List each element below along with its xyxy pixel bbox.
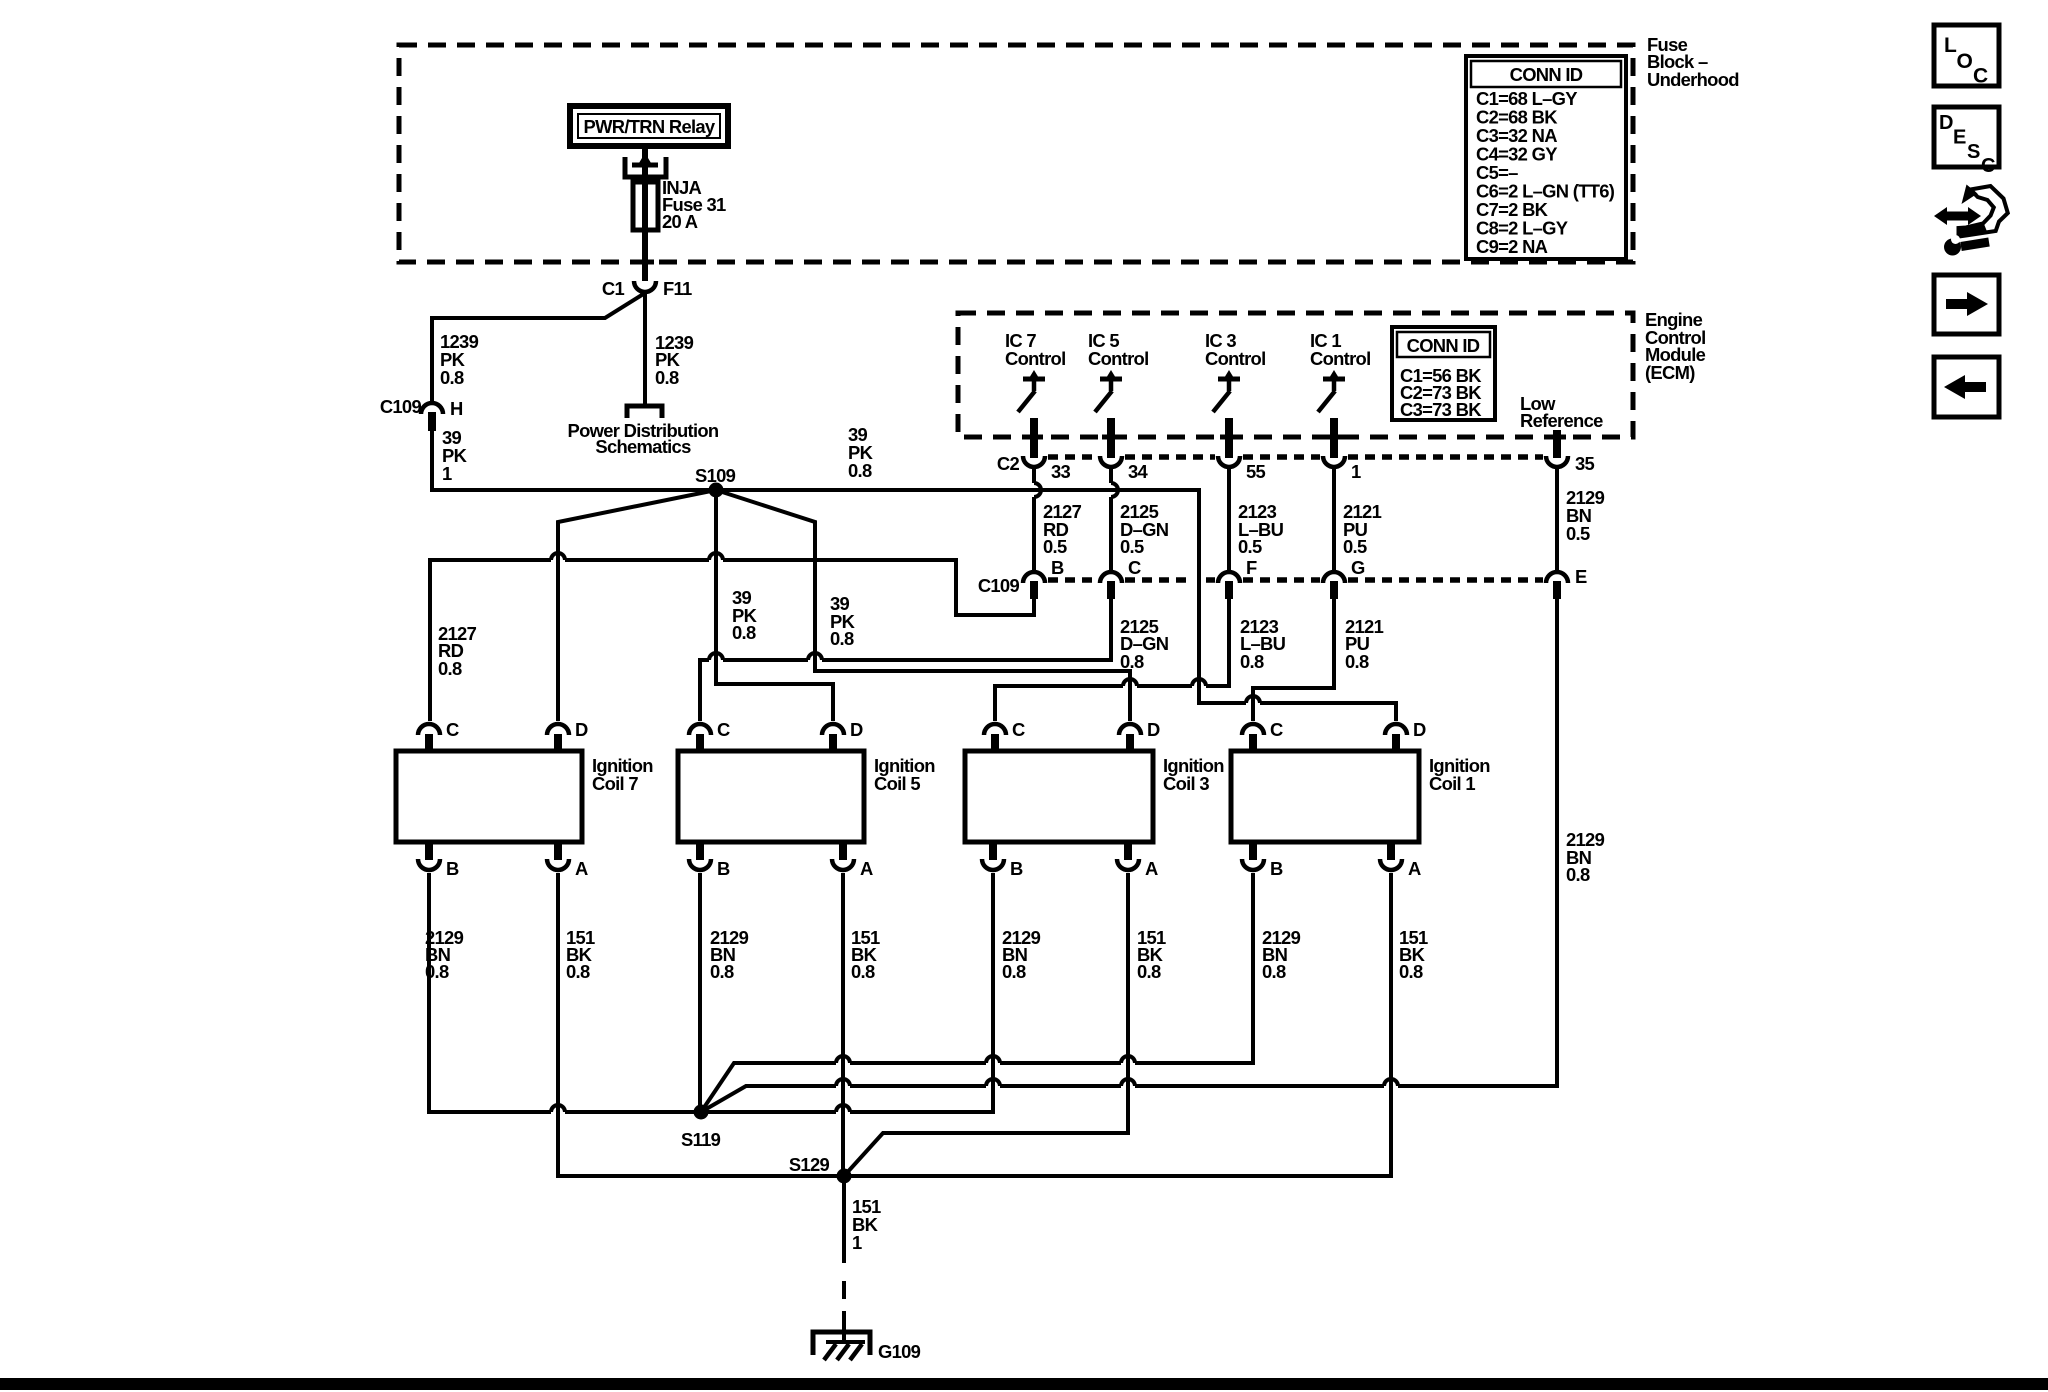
svg-text:S119: S119 — [681, 1129, 721, 1150]
coil 3 pin A — [1117, 841, 1158, 879]
svg-text:PWR/TRN Relay: PWR/TRN Relay — [584, 116, 716, 137]
svg-text:G: G — [1351, 557, 1365, 578]
svg-text:(ECM): (ECM) — [1645, 362, 1695, 383]
wire 2127 RD 0.8 (C109 B to coil 7 C) — [430, 553, 1034, 721]
ignition coil 5 box — [678, 751, 935, 842]
label 2127 RD 0.8 — [438, 623, 477, 679]
svg-text:Coil 5: Coil 5 — [874, 773, 920, 794]
svg-text:C: C — [1270, 719, 1283, 740]
label 39 PK 1 — [442, 427, 468, 484]
coil 5 pin C — [689, 719, 730, 750]
svg-text:B: B — [1051, 557, 1064, 578]
connector C1 pin F11 — [602, 278, 692, 299]
label 2125 D-GN 0.5 — [1120, 501, 1169, 557]
connector C2 pin 34 — [1100, 456, 1149, 482]
splice S109 — [695, 465, 736, 498]
fuse block underhood dashed box — [399, 45, 1633, 262]
svg-text:Underhood: Underhood — [1647, 69, 1739, 90]
coil 5 pin B — [689, 841, 730, 879]
wire 39 PK to coil 5 D — [716, 490, 833, 721]
svg-text:C: C — [1981, 155, 1995, 177]
connector C2 pin 33 — [1023, 456, 1071, 482]
svg-text:B: B — [446, 858, 459, 879]
svg-text:C3=73 BK: C3=73 BK — [1400, 399, 1482, 420]
label 2121 PU 0.8 — [1345, 616, 1384, 672]
svg-text:CONN ID: CONN ID — [1407, 335, 1480, 356]
svg-text:0.8: 0.8 — [655, 367, 679, 388]
coil 1 pin B — [1242, 841, 1283, 879]
right margin icon arrow right — [1934, 275, 1999, 334]
label Engine Control Module (ECM) — [1645, 309, 1706, 383]
label 39 PK 0.8 (upper right of S109) — [848, 424, 874, 481]
coil 5 pin D — [822, 719, 863, 750]
svg-text:35: 35 — [1575, 453, 1595, 474]
svg-text:0.8: 0.8 — [1566, 864, 1590, 885]
svg-text:Coil 1: Coil 1 — [1429, 773, 1475, 794]
wire 2125 D-GN 0.5 (pin 34 to C109 C) — [1111, 469, 1118, 570]
svg-text:0.8: 0.8 — [1002, 961, 1026, 982]
label Low Reference — [1520, 393, 1603, 431]
wire 2121 PU 0.8 (C109 G to coil 1 C) — [1253, 599, 1334, 721]
splice S129 — [789, 1154, 852, 1184]
coil 7 pin B — [418, 841, 459, 879]
wire 2123 L-BU 0.8 (C109 F to coil 3 C) — [995, 599, 1229, 721]
label 1239 PK 0.8 (left) — [440, 331, 479, 388]
svg-text:34: 34 — [1128, 461, 1149, 482]
svg-text:0.8: 0.8 — [1240, 651, 1264, 672]
svg-text:E: E — [1575, 566, 1587, 587]
wire 1239 PK 0.8 branch to C109 H — [432, 293, 645, 401]
label 2129 BN 0.5 — [1566, 487, 1605, 544]
connector C109 pin C — [1100, 557, 1141, 599]
svg-text:0.8: 0.8 — [732, 622, 756, 643]
connector C109 pin E — [1546, 566, 1587, 599]
svg-text:33: 33 — [1051, 461, 1071, 482]
coil 5 pin A — [832, 841, 873, 879]
ignition coil 7 box — [396, 751, 653, 842]
svg-text:0.8: 0.8 — [1345, 651, 1369, 672]
label 39 PK 0.8 (at x716 branch) — [732, 587, 758, 643]
wire 39 PK to coil 3 D — [716, 490, 1130, 721]
svg-text:D: D — [850, 719, 863, 740]
bottom page bar — [0, 1378, 2048, 1390]
wire 39 PK main: C109 H to S109 to coil 1 D — [432, 430, 1396, 721]
coil 7 pin D — [547, 719, 588, 750]
svg-text:0.8: 0.8 — [848, 460, 872, 481]
svg-text:1: 1 — [852, 1232, 862, 1253]
svg-text:L: L — [1944, 34, 1957, 57]
connector C2 dashed line — [997, 453, 1543, 474]
svg-text:O: O — [1957, 50, 1973, 73]
svg-text:F11: F11 — [663, 278, 692, 299]
connector C109 dashed line — [978, 575, 1543, 596]
label 2127 RD 0.5 — [1043, 501, 1082, 557]
svg-text:B: B — [1010, 858, 1023, 879]
ECM dashed box — [958, 313, 1633, 437]
svg-text:0.8: 0.8 — [851, 961, 875, 982]
svg-text:D: D — [1413, 719, 1426, 740]
svg-text:0.5: 0.5 — [1043, 536, 1067, 557]
wire 2129 BN 0.8 (C109 E to S119) — [701, 599, 1557, 1112]
wire 151 BK coil3 A to S129 — [844, 873, 1128, 1176]
svg-text:0.8: 0.8 — [566, 961, 590, 982]
wire 2129 BN coil1 B to S119 — [701, 873, 1253, 1112]
label 2121 PU 0.5 — [1343, 501, 1382, 557]
svg-text:0.8: 0.8 — [710, 961, 734, 982]
svg-text:S: S — [1967, 141, 1980, 163]
coil 3 pin C — [984, 719, 1025, 750]
svg-text:A: A — [1408, 858, 1421, 879]
svg-text:C: C — [717, 719, 730, 740]
svg-text:CONN ID: CONN ID — [1510, 64, 1583, 85]
svg-text:Control: Control — [1088, 348, 1148, 369]
svg-text:C109: C109 — [380, 396, 422, 417]
label 2123 L-BU 0.5 — [1238, 501, 1284, 557]
wire 2129 BN 0.5 (pin 35 to C109 E) — [1555, 469, 1559, 570]
svg-text:H: H — [450, 398, 463, 419]
wire 2129 BN coil7 B + S119 bus + coil3 B — [429, 873, 993, 1112]
right margin icon arrow left — [1934, 357, 1999, 417]
svg-text:0.5: 0.5 — [1238, 536, 1262, 557]
svg-text:Control: Control — [1205, 348, 1265, 369]
label IC 7 Control — [1005, 330, 1065, 369]
svg-text:A: A — [575, 858, 588, 879]
wire 151 BK coil7 A + S129 bus + coil1 A — [558, 873, 1391, 1176]
svg-text:20 A: 20 A — [662, 211, 698, 232]
ECM CONN ID table — [1392, 327, 1495, 420]
bottom wire label 151 BK 0.8 (coil 5 A) — [851, 927, 880, 982]
svg-text:G109: G109 — [878, 1341, 921, 1362]
connector C109 pin F — [1218, 557, 1257, 599]
label 2125 D-GN 0.8 — [1120, 616, 1169, 672]
wire 2121 PU 0.5 (pin 1 to C109 G) — [1332, 469, 1336, 570]
svg-text:0.8: 0.8 — [1137, 961, 1161, 982]
svg-text:0.8: 0.8 — [438, 658, 462, 679]
svg-text:Coil 7: Coil 7 — [592, 773, 638, 794]
label 151 BK 1 — [852, 1196, 881, 1253]
connector C109 pin H — [380, 396, 463, 431]
svg-text:S109: S109 — [695, 465, 736, 486]
wire 151 BK coil5 A to S129 — [841, 873, 845, 1176]
fuse block feed bus symbol — [625, 153, 666, 177]
svg-text:C2: C2 — [997, 453, 1020, 474]
wire 2129 BN coil5 B to S119 — [698, 873, 702, 1112]
wire from relay through fuse to C1 — [642, 146, 648, 281]
connector C2 pin 35 — [1546, 453, 1595, 474]
svg-text:C: C — [1128, 557, 1141, 578]
svg-text:B: B — [1270, 858, 1283, 879]
svg-text:0.8: 0.8 — [440, 367, 464, 388]
bottom wire label 2129 BN 0.8 (coil 5 B) — [710, 927, 749, 982]
ignition coil 3 box — [965, 751, 1224, 842]
label 2129 BN 0.8 (E wire) — [1566, 829, 1605, 885]
svg-text:C: C — [446, 719, 459, 740]
svg-text:0.8: 0.8 — [1262, 961, 1286, 982]
bottom wire label 2129 BN 0.8 (coil 3 B) — [1002, 927, 1041, 982]
wire 39 PK to coil 7 D — [558, 490, 716, 721]
coil 3 pin D — [1119, 719, 1160, 750]
wire 2125 D-GN 0.8 (C109 C to coil 5 C) — [700, 599, 1111, 721]
coil 1 pin A — [1380, 841, 1421, 879]
bottom wire label 2129 BN 0.8 (coil 1 B) — [1262, 927, 1301, 982]
label 39 PK 0.8 (at x815 branch) — [830, 593, 856, 649]
connector C2 pin 55 — [1218, 456, 1266, 482]
svg-text:D: D — [1939, 112, 1953, 134]
svg-text:A: A — [1145, 858, 1158, 879]
connector C109 pin B — [1023, 557, 1064, 599]
svg-text:0.5: 0.5 — [1566, 523, 1590, 544]
ground G109 — [813, 1332, 921, 1362]
wire 151 BK 1 to ground — [842, 1176, 846, 1341]
right margin icon hotlink wrench arrows — [1934, 185, 2008, 256]
svg-text:D: D — [1147, 719, 1160, 740]
IC 3 driver symbol — [1213, 370, 1240, 458]
fuse label INJA Fuse 31 20 A — [662, 177, 726, 232]
coil 7 pin A — [547, 841, 588, 879]
svg-text:55: 55 — [1246, 461, 1266, 482]
svg-text:Coil 3: Coil 3 — [1163, 773, 1209, 794]
label Fuse Block - Underhood — [1647, 34, 1739, 90]
svg-text:0.8: 0.8 — [830, 628, 854, 649]
power distribution schematics bracket — [568, 406, 719, 457]
bottom wire label 2129 BN 0.8 (coil 7 B) — [425, 927, 464, 982]
bottom wire label 151 BK 0.8 (coil 1 A) — [1399, 927, 1428, 982]
connector C2 pin 1 — [1323, 456, 1361, 482]
bottom wire label 151 BK 0.8 (coil 3 A) — [1137, 927, 1166, 982]
fuse block CONN ID table — [1466, 56, 1626, 259]
svg-text:Control: Control — [1310, 348, 1370, 369]
bottom wire label 151 BK 0.8 (coil 7 A) — [566, 927, 595, 982]
svg-text:1: 1 — [1351, 461, 1361, 482]
svg-text:D: D — [575, 719, 588, 740]
splice S119 — [681, 1105, 721, 1151]
coil 3 pin B — [982, 841, 1023, 879]
svg-text:Reference: Reference — [1520, 410, 1603, 431]
label 1239 PK 0.8 (right) — [655, 332, 694, 388]
IC 7 driver symbol — [1018, 370, 1045, 458]
label 2123 L-BU 0.8 — [1240, 616, 1286, 672]
label IC 1 Control — [1310, 330, 1370, 369]
wire 1239 PK 0.8 down to power distribution — [643, 293, 647, 406]
svg-text:0.5: 0.5 — [1120, 536, 1144, 557]
svg-text:C: C — [1973, 65, 1988, 88]
ignition coil 1 box — [1231, 751, 1490, 842]
coil 1 pin C — [1242, 719, 1283, 750]
svg-text:C: C — [1012, 719, 1025, 740]
svg-text:B: B — [717, 858, 730, 879]
label IC 5 Control — [1088, 330, 1148, 369]
svg-text:C109: C109 — [978, 575, 1020, 596]
coil 7 pin C — [418, 719, 459, 750]
wire 2127 RD 0.5 (pin 33 to C109 B) — [1034, 469, 1041, 570]
relay PWR/TRN Relay label box — [570, 106, 728, 146]
svg-text:Control: Control — [1005, 348, 1065, 369]
coil 1 pin D — [1385, 719, 1426, 750]
svg-text:0.5: 0.5 — [1343, 536, 1367, 557]
svg-text:F: F — [1246, 557, 1257, 578]
svg-text:0.8: 0.8 — [1399, 961, 1423, 982]
svg-text:Schematics: Schematics — [595, 436, 691, 457]
svg-text:1: 1 — [442, 463, 452, 484]
label IC 3 Control — [1205, 330, 1265, 369]
fuse F31 INJA 20A — [633, 182, 658, 230]
right margin icon LOC — [1934, 25, 1999, 88]
IC 1 driver symbol — [1318, 370, 1345, 458]
svg-text:E: E — [1953, 127, 1966, 149]
svg-text:S129: S129 — [789, 1154, 830, 1175]
wire 2123 L-BU 0.5 (pin 55 to C109 F) — [1227, 469, 1231, 570]
right margin icon DESC — [1934, 107, 1999, 177]
svg-text:C1: C1 — [602, 278, 625, 299]
svg-text:0.8: 0.8 — [1120, 651, 1144, 672]
svg-text:C9=2 NA: C9=2 NA — [1476, 236, 1548, 257]
connector C109 pin G — [1323, 557, 1365, 599]
IC 5 driver symbol — [1095, 370, 1122, 458]
low reference pin stub — [1553, 430, 1561, 458]
svg-text:A: A — [860, 858, 873, 879]
